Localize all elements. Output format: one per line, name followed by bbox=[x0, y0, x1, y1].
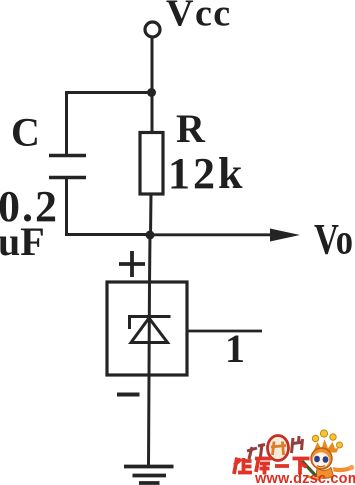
ku bbox=[255, 457, 272, 461]
arrowhead Vo bbox=[270, 229, 300, 242]
wire capacitor branch top vertical bbox=[65, 91, 68, 155]
svg-text:Vo: Vo bbox=[314, 217, 353, 264]
watermark logo bbox=[234, 430, 355, 485]
wire resistor bottom to junction J2 bbox=[149, 194, 153, 236]
wire through regulator box bbox=[148, 282, 152, 375]
polarity plus bbox=[119, 251, 145, 277]
glyph zhao bbox=[247, 445, 265, 460]
mascot crown bbox=[312, 430, 342, 453]
zener diode D1 cathode bar bbox=[128, 317, 171, 330]
svg-text:12k: 12k bbox=[168, 149, 245, 198]
polarity minus bbox=[117, 393, 140, 397]
svg-text:www.dzsc.com: www.dzsc.com bbox=[254, 471, 355, 485]
svg-text:Vcc: Vcc bbox=[166, 0, 232, 35]
svg-text:uF: uF bbox=[0, 219, 45, 264]
zener diode D1 triangle bbox=[131, 318, 168, 343]
wire regulator box bottom to ground bbox=[147, 375, 151, 466]
wire output line to arrow bbox=[150, 233, 276, 236]
resistor R bbox=[140, 133, 163, 195]
red ring chip bbox=[268, 436, 289, 461]
terminal Vcc bbox=[145, 22, 160, 37]
wire junction J2 down to regulator box bbox=[148, 235, 152, 283]
wire from junction J1 left to capacitor branch bbox=[67, 91, 152, 94]
mascot body and arm bbox=[316, 468, 334, 479]
ground bbox=[124, 467, 174, 484]
wire from Vcc terminal down to resistor top bbox=[151, 37, 154, 133]
pin 1 wire bbox=[187, 330, 262, 333]
wire capacitor branch bottom horizontal to junction J2 bbox=[65, 233, 150, 236]
regulator box U1 bbox=[107, 282, 187, 375]
wire capacitor branch bottom vertical bbox=[65, 178, 68, 235]
yi bbox=[275, 464, 289, 468]
svg-text:C: C bbox=[11, 110, 40, 155]
junction J2 bbox=[146, 231, 155, 240]
glyph pian bbox=[292, 436, 304, 453]
xia bbox=[293, 457, 310, 461]
svg-text:1: 1 bbox=[225, 326, 245, 371]
wei bbox=[234, 458, 237, 475]
svg-text:R: R bbox=[176, 106, 206, 151]
weiku yixia red glyphs bbox=[234, 458, 310, 475]
junction J1 bbox=[147, 88, 156, 97]
capacitor C bbox=[49, 156, 86, 178]
mascot head bbox=[311, 448, 332, 469]
